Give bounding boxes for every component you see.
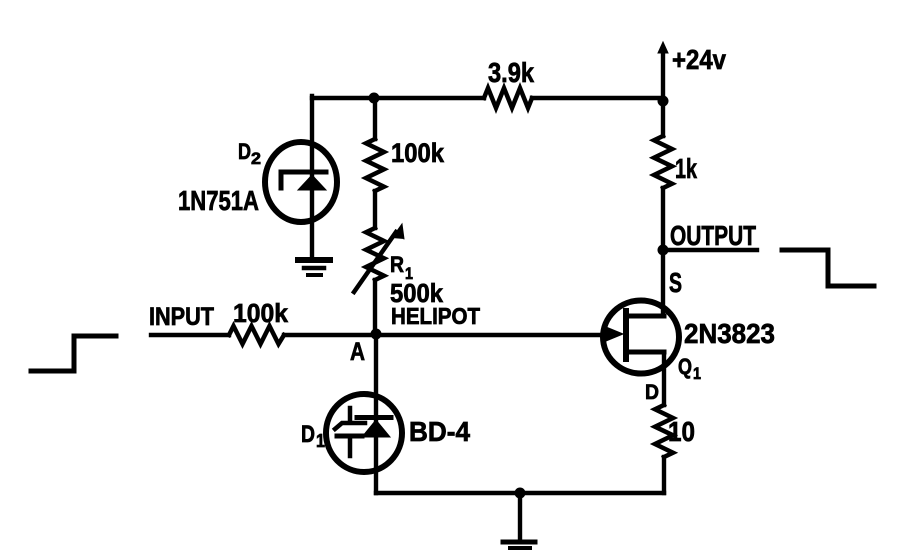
label Q1 [678, 354, 701, 383]
label node A [350, 338, 365, 366]
ground D2 [298, 260, 330, 275]
label INPUT [149, 303, 214, 331]
svg-text:1k: 1k [675, 153, 697, 184]
junction node +24v [658, 96, 669, 107]
input step waveform [31, 336, 116, 371]
label R1 [390, 252, 413, 283]
wire top rail [312, 96, 663, 100]
label 1N751A [178, 185, 259, 216]
power +24v wire [658, 42, 668, 136]
label 2N3823 [684, 318, 775, 349]
svg-text:1N751A: 1N751A [178, 185, 259, 216]
svg-text:S: S [669, 267, 682, 298]
wire R1 to node A [373, 280, 377, 334]
svg-text:D: D [645, 381, 659, 404]
potentiometer R1 500k helipot [354, 224, 404, 292]
svg-text:100k: 100k [391, 138, 445, 168]
svg-text:1: 1 [693, 364, 701, 383]
ground bottom [503, 493, 535, 548]
label D1 [301, 421, 325, 451]
diode D1 BD-4 [326, 394, 402, 472]
junction node ground [515, 488, 526, 499]
diode D2 1N751A zener [265, 142, 337, 222]
wire D1 branch [374, 334, 378, 493]
node A junction [371, 329, 382, 340]
label 1k [675, 153, 697, 184]
svg-text:INPUT: INPUT [149, 303, 214, 331]
resistor 1k [654, 136, 672, 188]
label 100k input [233, 298, 289, 328]
wire 10 to bottom rail [662, 457, 666, 493]
wire D lead [662, 352, 666, 405]
svg-text:+24v: +24v [672, 44, 726, 75]
resistor 3.9k [484, 88, 532, 108]
wire output [663, 248, 757, 252]
wire S lead [661, 250, 665, 316]
label +24v [672, 44, 726, 75]
svg-text:2: 2 [251, 149, 261, 168]
wire 1k to output node [661, 188, 665, 250]
label 10 [668, 416, 695, 447]
svg-text:OUTPUT: OUTPUT [670, 220, 756, 251]
svg-text:100k: 100k [233, 298, 289, 328]
svg-text:D: D [301, 421, 315, 448]
junction node output [658, 245, 669, 256]
label 100k top [391, 138, 445, 168]
wire input [151, 333, 229, 337]
svg-text:10: 10 [668, 416, 695, 447]
wire 100k to R1 [373, 191, 377, 228]
svg-text:3.9k: 3.9k [488, 57, 534, 88]
wire bottom rail [376, 491, 664, 495]
svg-text:2N3823: 2N3823 [684, 318, 775, 349]
label OUTPUT [670, 220, 756, 251]
pin label D [645, 381, 659, 404]
output step waveform [782, 250, 874, 286]
svg-text:Q: Q [678, 354, 692, 379]
pin label S [669, 267, 682, 298]
wire 100k branch upper [373, 98, 377, 139]
transistor Q1 2N3823 FET [603, 301, 679, 374]
svg-text:1: 1 [316, 431, 325, 451]
label 3.9k [488, 57, 534, 88]
label HELIPOT [391, 303, 480, 329]
resistor 100k input [229, 326, 284, 344]
svg-text:A: A [350, 338, 365, 366]
wire D2 branch [310, 96, 314, 258]
resistor 100k top [366, 139, 384, 191]
label 500k [390, 278, 443, 308]
svg-text:D: D [238, 139, 251, 164]
junction node top 100k [369, 93, 380, 104]
label D2 [238, 139, 261, 168]
svg-text:HELIPOT: HELIPOT [391, 303, 480, 329]
wire node A to gate [284, 333, 609, 337]
svg-text:BD-4: BD-4 [409, 416, 470, 447]
svg-text:R: R [390, 252, 404, 277]
resistor 10 [655, 405, 673, 457]
label BD-4 [409, 416, 470, 447]
